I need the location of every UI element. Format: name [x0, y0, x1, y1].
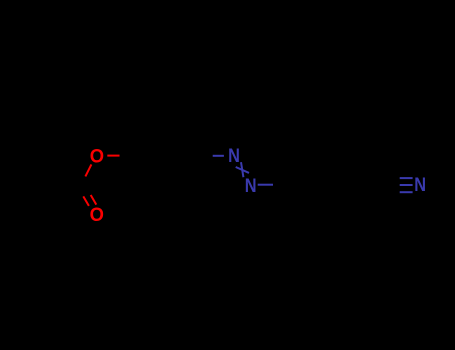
- bond N2-ring2 black half: [273, 184, 288, 186]
- bond O1-ring black half: [120, 155, 132, 157]
- azo N1=N2 crossed double bond: [236, 162, 249, 177]
- nitrile triple bond blue halves: [400, 178, 413, 192]
- bond C(carbonyl)-O1 black half: [79, 176, 85, 188]
- carbonyl C=O double bond red halves: [83, 195, 96, 206]
- bond ring1-N1 blue half: [213, 155, 224, 157]
- bond O1-ring red half: [107, 155, 119, 157]
- svg-text:N: N: [414, 174, 426, 196]
- bond ring1-N1 black half: [202, 155, 213, 157]
- nitrile triple bond black halves: [386, 178, 399, 192]
- benzene ring 1 (black, invisible): [132, 126, 202, 186]
- svg-text:N: N: [228, 145, 240, 167]
- svg-text:O: O: [90, 145, 104, 167]
- bond N2-ring2 blue half: [258, 184, 273, 186]
- svg-text:O: O: [90, 204, 104, 226]
- bond C(carbonyl)-O1 red half: [85, 164, 91, 176]
- carbonyl C=O double bond black halves: [78, 186, 91, 197]
- benzene ring 2 (black, invisible): [288, 155, 358, 215]
- vinyl group CH2=CH (black, invisible on black): [20, 170, 80, 190]
- svg-text:N: N: [245, 175, 257, 197]
- bond ring2-C(nitrile) black: [358, 184, 386, 186]
